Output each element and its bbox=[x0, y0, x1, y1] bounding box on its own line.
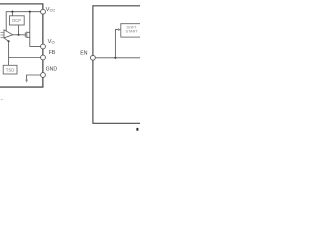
svg-text:TSD: TSD bbox=[6, 67, 15, 72]
block OCP bbox=[9, 16, 24, 25]
wire GND run bbox=[27, 75, 41, 80]
pin FB bbox=[41, 55, 46, 60]
svg-text:OCP: OCP bbox=[12, 18, 21, 23]
svg-text:EN: EN bbox=[80, 50, 87, 56]
svg-text:VO: VO bbox=[48, 39, 55, 45]
wire Vcc rail bbox=[6, 12, 41, 32]
svg-text:START: START bbox=[126, 29, 139, 33]
op-amp error amplifier bbox=[4, 30, 13, 38]
wire gate drive bbox=[13, 34, 25, 36]
wire drain to rail / source to Vo bbox=[30, 12, 41, 47]
svg-text:FB: FB bbox=[49, 50, 56, 56]
stray label fragment left edge bbox=[1, 99, 3, 100]
node rail-OCP junction bbox=[11, 11, 13, 13]
wire OCP top stub bbox=[11, 12, 13, 16]
pin Vo bbox=[41, 44, 46, 49]
wire feedback slant from amp bbox=[4, 38, 9, 41]
wire EN run bbox=[95, 57, 140, 59]
ground arrow bbox=[25, 80, 28, 83]
svg-text:VCC: VCC bbox=[46, 7, 56, 13]
wire OCP output drop bbox=[18, 25, 20, 35]
figure caption fragment bbox=[136, 128, 138, 131]
pin Vcc bbox=[41, 9, 46, 14]
pin EN bbox=[91, 55, 96, 60]
node feedback junction bbox=[8, 40, 10, 42]
IC2 right chip outline bbox=[93, 6, 143, 123]
node EN junction bbox=[114, 57, 116, 59]
wire soft start branch bbox=[115, 30, 118, 58]
svg-text:GND: GND bbox=[46, 66, 58, 72]
wire FB vertical bbox=[8, 41, 10, 65]
block SOFT START bbox=[121, 24, 143, 37]
node gate junction bbox=[17, 34, 19, 36]
node rail-pass-FET junction bbox=[29, 11, 31, 13]
block TSD bbox=[3, 65, 17, 74]
IC1 left chip outline bbox=[0, 4, 43, 87]
reference input ticks bbox=[1, 32, 5, 37]
transistor Q1 pass PMOS bbox=[25, 32, 30, 38]
wire FB horizontal bbox=[9, 57, 41, 59]
soft start arrow bbox=[118, 28, 121, 31]
pin GND bbox=[41, 73, 46, 78]
